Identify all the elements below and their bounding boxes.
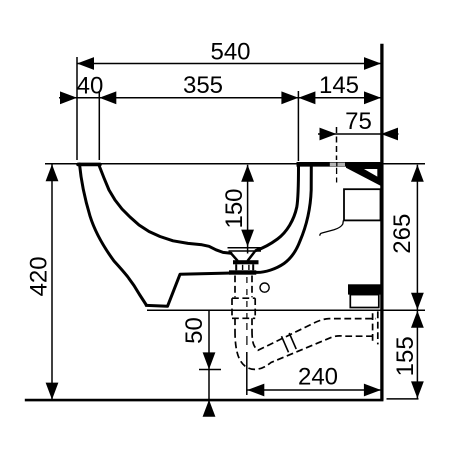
75 outside xyxy=(320,128,337,141)
svg-text:50: 50 xyxy=(181,317,208,344)
wall support bracket xyxy=(346,163,381,187)
supply hose line xyxy=(320,220,344,235)
bidet rear outer wall xyxy=(256,166,311,272)
240 xyxy=(247,384,264,397)
drain lever circle xyxy=(260,283,269,292)
svg-text:265: 265 xyxy=(389,214,416,254)
svg-text:75: 75 xyxy=(345,108,372,135)
bidet rear inner wall xyxy=(256,166,299,250)
trap union nut marks xyxy=(282,336,289,352)
siphon trap (dashed) xyxy=(232,276,378,370)
svg-text:155: 155 xyxy=(392,336,419,376)
wall fixing block xyxy=(348,284,381,294)
150 xyxy=(241,165,254,182)
dimension lines 540/355/75/420/150/265/155/50/240 xyxy=(52,64,417,414)
svg-text:150: 150 xyxy=(221,188,248,228)
svg-text:420: 420 xyxy=(26,256,53,296)
mounting frame xyxy=(344,189,381,220)
extension lines xyxy=(45,57,425,310)
waste fitting flange and nut xyxy=(233,260,259,264)
svg-text:40: 40 xyxy=(77,73,104,100)
265 xyxy=(411,165,424,182)
bidet front rim top xyxy=(78,163,100,167)
arrowheads xyxy=(46,57,424,417)
355/145 xyxy=(281,91,298,104)
wall line (right vertical) xyxy=(380,44,383,401)
40 outside xyxy=(60,91,77,104)
rear rim deck band with inlet hole xyxy=(297,162,382,167)
svg-text:540: 540 xyxy=(210,39,250,66)
bidet outer front profile xyxy=(80,164,147,305)
dimension value labels xyxy=(26,39,419,391)
floor line (bottom horizontal) xyxy=(25,399,384,402)
tailpipe centre line dashes xyxy=(246,277,248,345)
50 outside xyxy=(203,352,216,369)
fixture outline xyxy=(78,164,311,306)
75 dashed ticks below rim xyxy=(336,168,338,174)
bidet inner bowl curve xyxy=(99,166,231,253)
420 xyxy=(46,164,59,181)
svg-text:240: 240 xyxy=(298,364,338,391)
drain recess funnel xyxy=(231,253,237,260)
155 xyxy=(411,311,424,328)
svg-text:355: 355 xyxy=(183,72,223,99)
bidet underside profile xyxy=(146,273,232,306)
540 xyxy=(77,57,94,70)
svg-text:145: 145 xyxy=(319,72,359,99)
